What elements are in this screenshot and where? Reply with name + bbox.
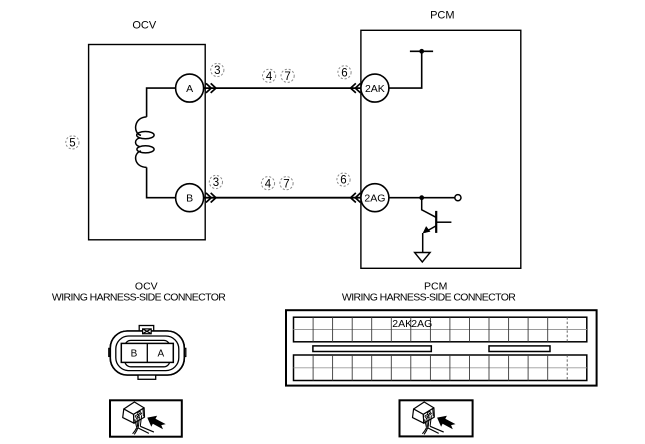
transistor Q1 (PCM driver)	[422, 198, 452, 255]
wire terminal B to PCM terminal 2AG	[204, 197, 361, 199]
PCM connector lower terminal grid	[294, 355, 587, 381]
circled number 6 (row A)	[338, 66, 351, 80]
PCM box	[361, 30, 521, 268]
circled number 7 (row A)	[281, 69, 294, 83]
circled number 6 (row B)	[337, 173, 350, 187]
connector key slot left	[313, 346, 431, 352]
svg-text:7: 7	[284, 71, 290, 83]
terminal A (OCV)	[176, 74, 204, 102]
connector cube icon (OCV)	[123, 402, 166, 434]
circled number 4 (row A)	[263, 69, 276, 83]
OCV box	[89, 45, 206, 240]
viewing direction icon box (PCM)	[400, 400, 473, 436]
svg-text:WIRING HARNESS-SIDE CONNECTOR: WIRING HARNESS-SIDE CONNECTOR	[342, 292, 516, 304]
connector cube icon (PCM)	[413, 402, 456, 434]
wire coil to terminal B	[147, 167, 176, 197]
svg-text:2AK: 2AK	[392, 318, 412, 330]
svg-text:A: A	[157, 349, 164, 360]
svg-text:OCV: OCV	[132, 19, 157, 31]
terminal 2AG (PCM)	[361, 184, 389, 212]
svg-text:6: 6	[341, 67, 347, 79]
svg-text:2AK: 2AK	[365, 83, 385, 95]
svg-text:B: B	[131, 349, 138, 360]
wire terminal A to PCM terminal 2AK	[204, 87, 361, 89]
svg-text:5: 5	[69, 138, 75, 150]
svg-text:A: A	[186, 83, 193, 95]
terminal cells B and A	[121, 343, 173, 362]
wire 2AG to output node	[389, 197, 455, 199]
PCM harness connector outline	[286, 310, 597, 385]
svg-text:4: 4	[265, 178, 272, 190]
svg-text:B: B	[186, 192, 193, 204]
svg-text:7: 7	[283, 178, 289, 190]
svg-text:2AG: 2AG	[364, 192, 385, 204]
in-line connector arrows at B	[207, 194, 216, 202]
open terminal circle (output)	[455, 195, 461, 201]
connector key slot right	[489, 346, 550, 352]
svg-text:WIRING HARNESS-SIDE CONNECTOR: WIRING HARNESS-SIDE CONNECTOR	[52, 292, 226, 304]
inductor coil (OCV solenoid winding)	[136, 117, 155, 167]
svg-text:PCM: PCM	[430, 10, 454, 22]
terminal labels 2AK 2AG in grid	[392, 318, 432, 330]
viewing direction icon box (OCV)	[110, 400, 182, 436]
terminal 2AK (PCM)	[361, 74, 389, 102]
svg-text:6: 6	[340, 175, 346, 187]
circled number 5	[66, 136, 79, 150]
circled number 3 (row A)	[211, 63, 224, 77]
svg-text:4: 4	[266, 71, 273, 83]
ground symbol	[415, 253, 431, 263]
PCM connector upper terminal grid	[294, 317, 587, 342]
svg-text:3: 3	[213, 177, 219, 189]
terminal B (OCV)	[176, 184, 204, 212]
circled number 3 (row B)	[209, 175, 222, 189]
svg-text:3: 3	[214, 65, 220, 77]
in-line connector arrows at 2AK	[351, 84, 360, 92]
in-line connector arrows at 2AG	[351, 194, 360, 202]
power rail bar	[410, 50, 433, 52]
junction dot node (collector)	[419, 195, 424, 200]
OCV harness connector body	[109, 326, 186, 380]
in-line connector arrows at A	[207, 84, 216, 92]
circled number 4 (row B)	[261, 177, 274, 191]
circled number 7 (row B)	[280, 177, 293, 191]
connector lock mark (boxed X)	[143, 329, 152, 334]
junction dot on power rail	[419, 49, 424, 54]
svg-text:2AG: 2AG	[411, 318, 432, 330]
wire terminal A to coil	[147, 88, 176, 117]
wire 2AK to power rail	[389, 51, 422, 88]
